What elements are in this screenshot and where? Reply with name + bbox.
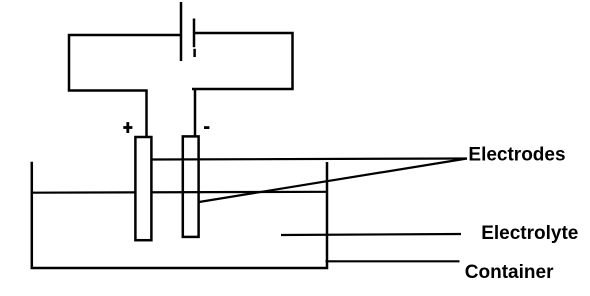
svg-text:Electrolyte: Electrolyte	[481, 223, 578, 244]
svg-text:Container: Container	[465, 262, 554, 283]
svg-text:Electrodes: Electrodes	[468, 144, 565, 165]
